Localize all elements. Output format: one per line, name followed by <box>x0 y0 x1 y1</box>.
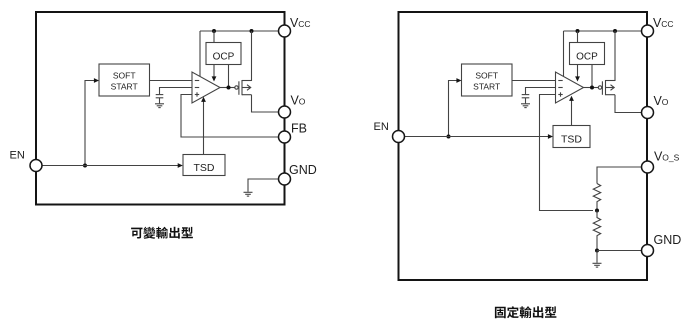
svg-text:GND: GND <box>289 163 317 177</box>
TSD block (left) <box>183 155 225 176</box>
label Vo_s pin (right) <box>654 150 680 164</box>
pin EN (right) <box>393 131 405 143</box>
label Vcc pin (right) <box>653 16 674 30</box>
wire Vcc top rail (right) <box>564 30 642 32</box>
svg-text:OCP: OCP <box>576 52 598 63</box>
wire FB feedback to op-amp non-inverting input (left) <box>181 95 279 138</box>
OCP block U2 (right) <box>570 43 605 65</box>
pin GND (right) <box>642 245 654 257</box>
ground internal (left) <box>244 192 253 196</box>
transistor pass PMOS Q1 (right) <box>598 80 615 95</box>
caption adjustable output type (left) <box>131 227 193 239</box>
pin Vcc (right) <box>642 25 654 37</box>
wire soft start output to op-amp inverting input (right) <box>512 80 556 82</box>
node op-amp output to gate (right) <box>584 86 599 90</box>
wire OCP control arrow to op-amp (left) <box>212 65 217 82</box>
wire OCP supply (right) <box>577 31 579 43</box>
label FB pin (left) <box>291 122 307 136</box>
junction EN branch (right) <box>447 135 451 139</box>
wire OCP control arrow to op-amp (right) <box>575 65 580 82</box>
wire FET source (left) <box>242 31 252 81</box>
svg-text:FB: FB <box>291 122 307 136</box>
OCP block U2 (left) <box>206 43 241 65</box>
capacitor reference bypass C1 (left) <box>156 95 164 104</box>
wire op-amp supply drop (right) <box>563 31 565 77</box>
wire FET drain to Vo pin (right) <box>615 95 641 113</box>
pin EN (left) <box>30 160 42 172</box>
wire op-amp supply drop (left) <box>199 31 201 77</box>
wire Vcc top rail (left) <box>200 30 279 32</box>
wire EN to TSD (left) <box>42 163 183 168</box>
pin Vo (left) <box>279 106 291 118</box>
transistor pass PMOS Q1 (left) <box>235 80 252 95</box>
wire OCP supply (left) <box>213 31 215 43</box>
op-amp error amplifier U1 (right) <box>556 72 584 103</box>
resistor R2 divider lower (right) <box>593 211 600 251</box>
svg-text:SOFT: SOFT <box>475 70 498 80</box>
pin GND (left) <box>279 173 291 185</box>
junction on Vcc rail to pass FET source (left) <box>250 29 254 33</box>
svg-text:CC: CC <box>661 19 673 29</box>
pin Vcc (left) <box>279 25 291 37</box>
label Vo pin (right) <box>654 94 669 108</box>
junction on Vcc rail to OCP (right) <box>576 29 580 33</box>
resistor R1 divider upper (right) <box>593 184 600 211</box>
wire Vref input with bypass (right) <box>526 88 556 95</box>
ground below divider (right) <box>593 251 602 268</box>
wire divider tap to op-amp non-inverting input (right) <box>540 95 594 211</box>
SOFT START block (right) <box>462 64 513 96</box>
capacitor reference bypass C1 (right) <box>522 95 530 104</box>
wire OCP to output node (right) <box>591 65 593 88</box>
label GND pin (left) <box>289 163 317 177</box>
caption fixed output type (right) <box>495 306 557 318</box>
pin Vo_s (right) <box>642 161 654 173</box>
wire GND pin to divider bottom (right) <box>597 250 641 252</box>
wire FET drain to Vo pin (left) <box>252 95 279 112</box>
label EN pin (left) <box>10 150 25 162</box>
wire EN to soft start (left) <box>85 78 99 165</box>
wire EN to TSD (right) <box>404 134 553 139</box>
wire EN to soft start (right) <box>449 78 462 136</box>
junction divider tap (right) <box>595 209 599 213</box>
pin FB (left) <box>279 131 291 143</box>
wire TSD shutdown arrow to op-amp (right) <box>569 96 574 126</box>
TSD block (right) <box>553 126 590 148</box>
wire TSD shutdown arrow to op-amp (left) <box>201 97 206 155</box>
label GND pin (right) <box>654 233 682 247</box>
svg-text:O_S: O_S <box>662 153 679 163</box>
IC outline box (right) <box>399 12 648 280</box>
op-amp error amplifier U1 (left) <box>192 72 220 103</box>
svg-text:GND: GND <box>654 233 682 247</box>
junction on Vcc rail to pass FET source (right) <box>613 29 617 33</box>
ground below capacitor (right) <box>521 104 530 108</box>
svg-text:OCP: OCP <box>213 52 235 63</box>
label Vo pin (left) <box>291 94 306 108</box>
svg-text:EN: EN <box>10 150 25 162</box>
svg-text:START: START <box>111 82 138 92</box>
pin Vo (right) <box>642 107 654 119</box>
wire Vref input with bypass (left) <box>160 88 193 95</box>
IC outline box (left) <box>36 12 285 205</box>
svg-text:O: O <box>299 97 306 107</box>
wire OCP to output node (left) <box>228 65 230 88</box>
node op-amp output to gate (left) <box>220 86 235 90</box>
wire FET source (right) <box>606 31 616 81</box>
svg-text:START: START <box>473 82 500 92</box>
SOFT START block (left) <box>99 64 150 96</box>
svg-text:TSD: TSD <box>194 162 215 174</box>
svg-text:SOFT: SOFT <box>113 70 136 80</box>
svg-text:EN: EN <box>374 121 389 133</box>
label Vcc pin (left) <box>290 16 311 30</box>
label EN pin (right) <box>374 121 389 133</box>
junction on Vcc rail to OCP (left) <box>212 29 216 33</box>
wire soft start output to op-amp inverting input (left) <box>150 80 193 82</box>
wire GND pin to internal ground (left) <box>248 179 279 192</box>
svg-text:TSD: TSD <box>561 134 582 146</box>
wire Vo_s pin to divider (right) <box>597 167 641 184</box>
junction divider bottom (right) <box>595 249 599 253</box>
ground below capacitor (left) <box>155 104 164 108</box>
svg-text:O: O <box>662 97 669 107</box>
junction EN branch (left) <box>83 164 87 168</box>
svg-text:CC: CC <box>298 19 310 29</box>
